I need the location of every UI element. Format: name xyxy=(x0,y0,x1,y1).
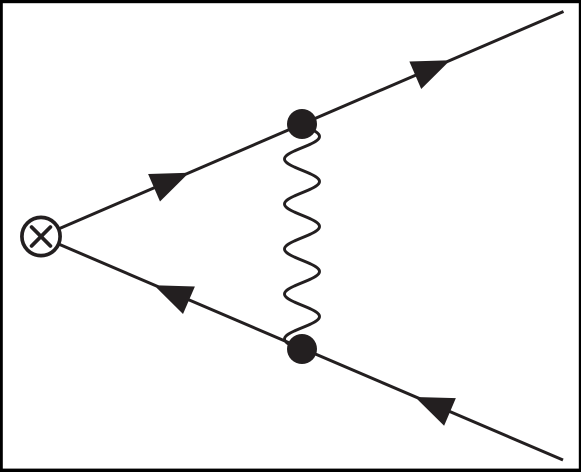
wire: lower fermion line from vertex X through bottom vertex to lower-right edge xyxy=(41,237,563,461)
node: top vertex dot xyxy=(287,109,317,139)
photon propagator (wavy line) between the two vertices xyxy=(285,124,320,349)
arrowhead on upper-left fermion segment (pointing up-right) xyxy=(148,173,189,202)
node: current insertion (circled X) xyxy=(22,217,60,255)
arrowhead on lower-left fermion segment (pointing up-left toward X) xyxy=(154,285,195,314)
node: bottom vertex dot xyxy=(287,334,317,364)
arrowhead on lower-right fermion segment (pointing up-left toward vertex) xyxy=(415,397,456,426)
arrowhead on upper-right fermion segment (pointing up-right) xyxy=(409,60,450,89)
wire: upper fermion line from vertex X through top vertex to upper-right edge xyxy=(41,12,564,237)
